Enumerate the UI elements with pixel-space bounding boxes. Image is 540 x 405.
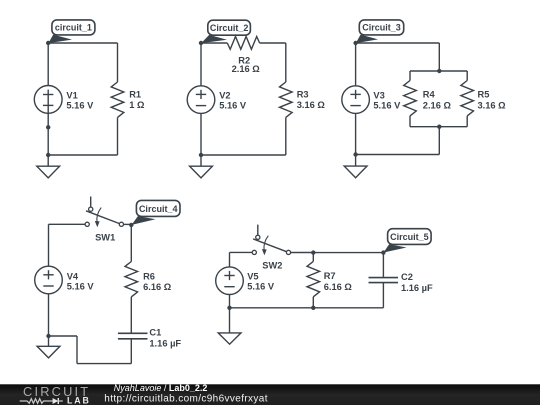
wire switch to R7 node	[291, 252, 314, 254]
svg-text:R1: R1	[129, 89, 141, 99]
junction dot c3 parallel bottom	[437, 125, 441, 129]
label C1 value	[149, 328, 181, 349]
junction dot c1 ground node	[46, 153, 50, 157]
svg-text:6.16 Ω: 6.16 Ω	[143, 282, 172, 292]
svg-text:V1: V1	[66, 91, 77, 101]
voltage source V2	[187, 86, 215, 114]
wire V5 bottom lead	[229, 295, 231, 308]
svg-text:Circuit_2: Circuit_2	[210, 23, 249, 33]
resistor R2	[227, 37, 259, 50]
voltage source V3	[342, 86, 370, 114]
resistor R6	[125, 262, 138, 297]
label R4 value	[423, 89, 452, 110]
voltage source V1	[34, 86, 62, 114]
wire c5 top to switch	[230, 251, 253, 253]
wire C1 bottom lead	[130, 339, 132, 364]
ground c3	[344, 155, 367, 178]
resistor R3	[280, 82, 293, 117]
svg-text:NyahLavoie / Lab0_2.2: NyahLavoie / Lab0_2.2	[114, 383, 208, 393]
node label Circuit_5	[384, 229, 432, 253]
voltage source V5	[216, 267, 244, 295]
capacitor C1	[118, 333, 148, 339]
junction dot c1 mid	[46, 125, 50, 129]
ground c5	[218, 308, 241, 344]
svg-text:Circuit_3: Circuit_3	[362, 23, 401, 33]
ground c2	[190, 155, 213, 178]
wire R4 top lead	[409, 71, 411, 81]
wire V1 bottom lead	[47, 113, 49, 155]
svg-text:C1: C1	[149, 328, 161, 338]
label R6 value	[143, 271, 172, 292]
svg-text:V3: V3	[373, 91, 384, 101]
wire V4 bottom lead	[48, 294, 50, 336]
wire switch to node c4	[124, 223, 132, 225]
wire bottom c1	[48, 154, 117, 156]
wire c3 down to parallel	[438, 43, 440, 71]
svg-text:Circuit_5: Circuit_5	[390, 232, 429, 242]
svg-text:V5: V5	[247, 272, 258, 282]
svg-text:http://circuitlab.com/c9h6vvef: http://circuitlab.com/c9h6vvefrxyat	[104, 393, 268, 404]
ground c4	[37, 336, 60, 358]
wire R3 bottom lead	[285, 117, 287, 155]
label V2 value	[219, 91, 247, 111]
switch SW2	[252, 225, 290, 256]
svg-text:SW2: SW2	[262, 260, 282, 270]
junction node c2 top-left	[199, 41, 203, 45]
svg-text:3.16 Ω: 3.16 Ω	[478, 100, 507, 110]
logo diode	[53, 398, 63, 404]
wire c4 top to switch	[49, 223, 86, 225]
wire C2 bottom lead	[382, 283, 384, 308]
junction dot c3 ground node	[353, 152, 357, 156]
svg-text:5.16 V: 5.16 V	[373, 101, 401, 111]
svg-text:R3: R3	[297, 89, 309, 99]
label R1 value	[129, 89, 145, 110]
node label Circuit_4	[132, 200, 180, 225]
svg-text:1.16 µF: 1.16 µF	[401, 283, 433, 293]
wire top-left c2	[201, 42, 227, 44]
wire parallel top rail	[410, 70, 467, 72]
resistor R7	[307, 261, 320, 296]
junction node c5 C2 top	[381, 250, 385, 254]
wire V2 bottom lead	[200, 113, 202, 155]
junction node c4	[129, 223, 133, 227]
wire c4 riser	[76, 336, 78, 364]
label R2 value	[232, 56, 261, 74]
wire R6 top lead	[130, 225, 132, 262]
label R7 value	[324, 271, 353, 292]
svg-text:1.16 µF: 1.16 µF	[149, 338, 181, 348]
label V5 value	[247, 272, 275, 292]
wire top c1	[48, 42, 117, 44]
svg-text:5.16 V: 5.16 V	[219, 101, 247, 111]
svg-text:C2: C2	[401, 272, 413, 282]
resistor R1	[111, 82, 124, 117]
ground c1	[37, 155, 60, 178]
junction dot c5 R7 top	[311, 250, 315, 254]
wire V3 bottom lead	[355, 113, 357, 154]
wire R7 node to C2 node	[313, 252, 383, 254]
svg-text:R5: R5	[478, 89, 490, 99]
svg-text:3.16 Ω: 3.16 Ω	[297, 100, 326, 110]
svg-text:R7: R7	[324, 271, 336, 281]
junction dot c5 R7 bottom	[311, 306, 315, 310]
wire V5 top lead	[229, 252, 231, 267]
wire R7 top lead	[312, 253, 314, 262]
label V1 value	[66, 91, 94, 111]
svg-text:SW1: SW1	[95, 232, 115, 242]
wire bottom c5	[230, 307, 384, 309]
wire bottom c3	[356, 154, 440, 156]
wire R3 top lead	[285, 43, 287, 82]
node label circuit_1	[48, 20, 95, 43]
label V3 value	[373, 91, 401, 111]
voltage source V4	[35, 266, 63, 294]
wire V4 top lead	[48, 224, 50, 266]
wire parallel bottom rail	[410, 126, 467, 128]
node label Circuit_3	[356, 20, 404, 43]
wire R5 bottom lead	[466, 116, 468, 127]
label R3 value	[297, 89, 326, 110]
wire c4 to ground node	[49, 335, 78, 337]
resistor R4	[404, 81, 417, 116]
label V4 value	[67, 271, 95, 291]
wire top-right c2	[260, 42, 286, 44]
svg-text:V2: V2	[219, 91, 230, 101]
wire C2 top lead	[382, 253, 384, 278]
svg-text:6.16 Ω: 6.16 Ω	[324, 282, 353, 292]
wire bottom c2	[201, 154, 286, 156]
label C2 value	[401, 272, 433, 293]
node label Circuit_2	[201, 20, 250, 43]
junction dot c3 parallel top	[437, 69, 441, 73]
capacitor C2	[369, 278, 399, 283]
junction dot c4 ground node	[46, 334, 50, 338]
svg-text:circuit_1: circuit_1	[55, 23, 92, 33]
svg-text:LAB: LAB	[67, 395, 91, 405]
wire V3 top lead	[355, 43, 357, 86]
wire R5 top lead	[466, 71, 468, 81]
junction dot c2 ground node	[199, 153, 203, 157]
wire c3 down from parallel	[438, 127, 440, 155]
switch SW1	[85, 197, 123, 228]
svg-text:2.16 Ω: 2.16 Ω	[423, 100, 452, 110]
junction node c3 top-left	[353, 41, 357, 45]
wire top c3	[356, 42, 440, 44]
wire bottom c4	[77, 363, 131, 365]
svg-text:5.16 V: 5.16 V	[67, 281, 95, 291]
logo waveform resistor	[20, 399, 53, 404]
svg-text:R4: R4	[423, 89, 436, 99]
wire R1 top lead	[117, 43, 119, 82]
label R5 value	[478, 89, 507, 110]
wire R1 bottom lead	[117, 117, 119, 155]
wire R7 bottom lead	[312, 297, 314, 308]
wire R4 bottom lead	[409, 116, 411, 127]
wire R6 to C1	[130, 297, 132, 333]
svg-text:Circuit_4: Circuit_4	[139, 204, 178, 214]
svg-text:1 Ω: 1 Ω	[129, 100, 145, 110]
junction node c1 top-left	[46, 41, 50, 45]
junction dot c5 ground node	[227, 306, 231, 310]
resistor R5	[461, 81, 474, 116]
wire V1 top lead	[47, 43, 49, 86]
wire V2 top lead	[200, 43, 202, 86]
svg-text:R6: R6	[143, 271, 155, 281]
svg-text:5.16 V: 5.16 V	[247, 282, 275, 292]
svg-text:5.16 V: 5.16 V	[66, 101, 94, 111]
svg-text:2.16 Ω: 2.16 Ω	[232, 64, 261, 74]
svg-text:V4: V4	[67, 271, 79, 281]
